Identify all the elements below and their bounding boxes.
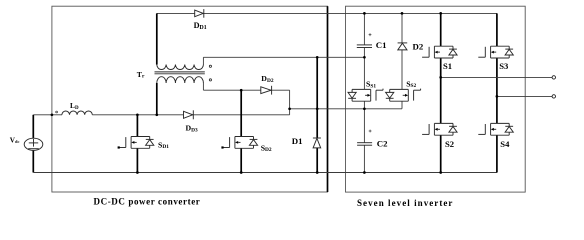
svg-text:Seven level inverter: Seven level inverter	[357, 198, 453, 208]
wire DD2 cathode drop x=289.6	[289, 90, 291, 109]
node link left	[288, 107, 291, 110]
wire S2 source to bottom rail	[440, 135, 442, 172]
wire D1 branch lower	[316, 148, 318, 173]
DC-DC box right edge (thick)	[327, 6, 329, 192]
node bus A top	[363, 12, 366, 15]
wire bottom rail y=172.5	[33, 172, 497, 174]
node rail-box edge	[51, 113, 54, 116]
diode D2	[398, 43, 408, 50]
seven level inverter enclosure box	[346, 6, 526, 192]
wire rail hook up at x=289.6	[289, 109, 291, 115]
wire S1 leg top	[440, 13, 442, 46]
MOSFET S1	[422, 46, 457, 58]
wire bus B lower (SS2 to link)	[401, 101, 403, 109]
wire SD1 drain lead	[136, 115, 138, 137]
wire D1 branch upper x=317.2	[316, 57, 318, 138]
node output A tap	[439, 76, 442, 79]
wire main rail y=114.8 right of inductor	[92, 114, 289, 116]
diode DD2	[261, 86, 272, 95]
node primary bottom	[155, 113, 158, 116]
wire S4 source to bottom rail	[496, 135, 498, 172]
wire S1-S2 midpoint leg	[440, 58, 442, 123]
node SD1 source	[136, 171, 139, 174]
MOSFET SS2	[386, 89, 421, 102]
diode DD1	[195, 9, 204, 18]
wire transformer primary top lead	[156, 13, 158, 64]
node D1 bottom	[316, 171, 319, 174]
MOSFET SD2	[221, 137, 257, 149]
node SD2 source	[240, 171, 243, 174]
wire bus B upper (top rail to D2)	[401, 13, 403, 43]
node D1 top	[316, 107, 319, 110]
node S2 source junction	[439, 171, 442, 174]
node marker small circle near LD	[56, 111, 58, 113]
wire Vdc bottom lead	[32, 150, 34, 172]
wire S3 leg top	[496, 13, 498, 46]
wire bus B (D2 to SS2)	[401, 50, 403, 90]
diode DD3	[184, 110, 194, 119]
node SD1 drain	[136, 113, 139, 116]
node secondary top tap	[316, 56, 319, 59]
transformer Tr	[155, 65, 212, 84]
wire transformer primary bottom lead	[156, 83, 158, 115]
svg-text:S3: S3	[499, 61, 508, 71]
svg-text:DC-DC power converter: DC-DC power converter	[94, 196, 201, 206]
wire SD2 source lead	[240, 148, 242, 172]
capacitor C1	[357, 45, 372, 48]
wire top rail y=13.4 (DD1 loop to inverter top rail)	[157, 12, 497, 14]
wire bus A (SS1 to C2)	[363, 101, 365, 143]
svg-text:S4: S4	[500, 139, 510, 149]
plus mark above C1	[369, 33, 372, 36]
MOSFET S3	[478, 46, 513, 58]
node bus A mid tap	[363, 56, 366, 59]
svg-text:C2: C2	[377, 138, 388, 148]
diode D1	[313, 138, 321, 148]
wire SD1 source lead	[136, 148, 138, 172]
wire link y=108.8	[290, 108, 402, 110]
wire secondary bottom y=90.2	[203, 89, 289, 91]
wire output B y=96.4	[497, 95, 552, 97]
node DD2 anode	[240, 89, 243, 92]
DC-DC converter enclosure box	[52, 6, 328, 192]
wire output A y=77.4	[441, 76, 552, 78]
MOSFET SD1	[118, 137, 154, 149]
inductor LD	[62, 111, 92, 115]
wire bus A (C1 to SS1)	[363, 48, 365, 90]
node bus A link	[363, 107, 366, 110]
wire DD2 anode junction drop x=241.2	[240, 90, 242, 136]
node S1 leg top	[439, 12, 442, 15]
node bus B top	[401, 12, 404, 15]
svg-text:D1: D1	[292, 136, 303, 146]
wire Vdc top lead	[32, 115, 34, 139]
svg-text:S2: S2	[445, 139, 454, 149]
node output B tap	[496, 95, 499, 98]
output terminal B	[552, 95, 555, 98]
plus mark above C2	[369, 130, 372, 133]
svg-text:D2: D2	[413, 41, 424, 51]
output terminal A	[552, 76, 555, 79]
MOSFET SS1	[348, 89, 383, 102]
capacitor C2	[357, 143, 372, 146]
wire main rail y=114.8 left of inductor	[33, 114, 62, 116]
MOSFET S2	[422, 123, 457, 135]
wire bus A lower (C2 to bottom rail)	[363, 145, 365, 172]
MOSFET S4	[478, 123, 513, 135]
voltage source Vdc	[24, 138, 43, 150]
wire S3-S4 midpoint leg	[496, 58, 498, 123]
wire secondary top y=57.3 to inverter	[203, 56, 364, 58]
wire secondary bottom lead	[202, 83, 204, 90]
svg-text:C1: C1	[376, 40, 387, 50]
wire secondary top lead	[202, 57, 204, 64]
svg-text:S1: S1	[443, 61, 452, 71]
node bus A bottom	[363, 171, 366, 174]
wire bus A upper (top rail to C1)	[363, 13, 365, 45]
